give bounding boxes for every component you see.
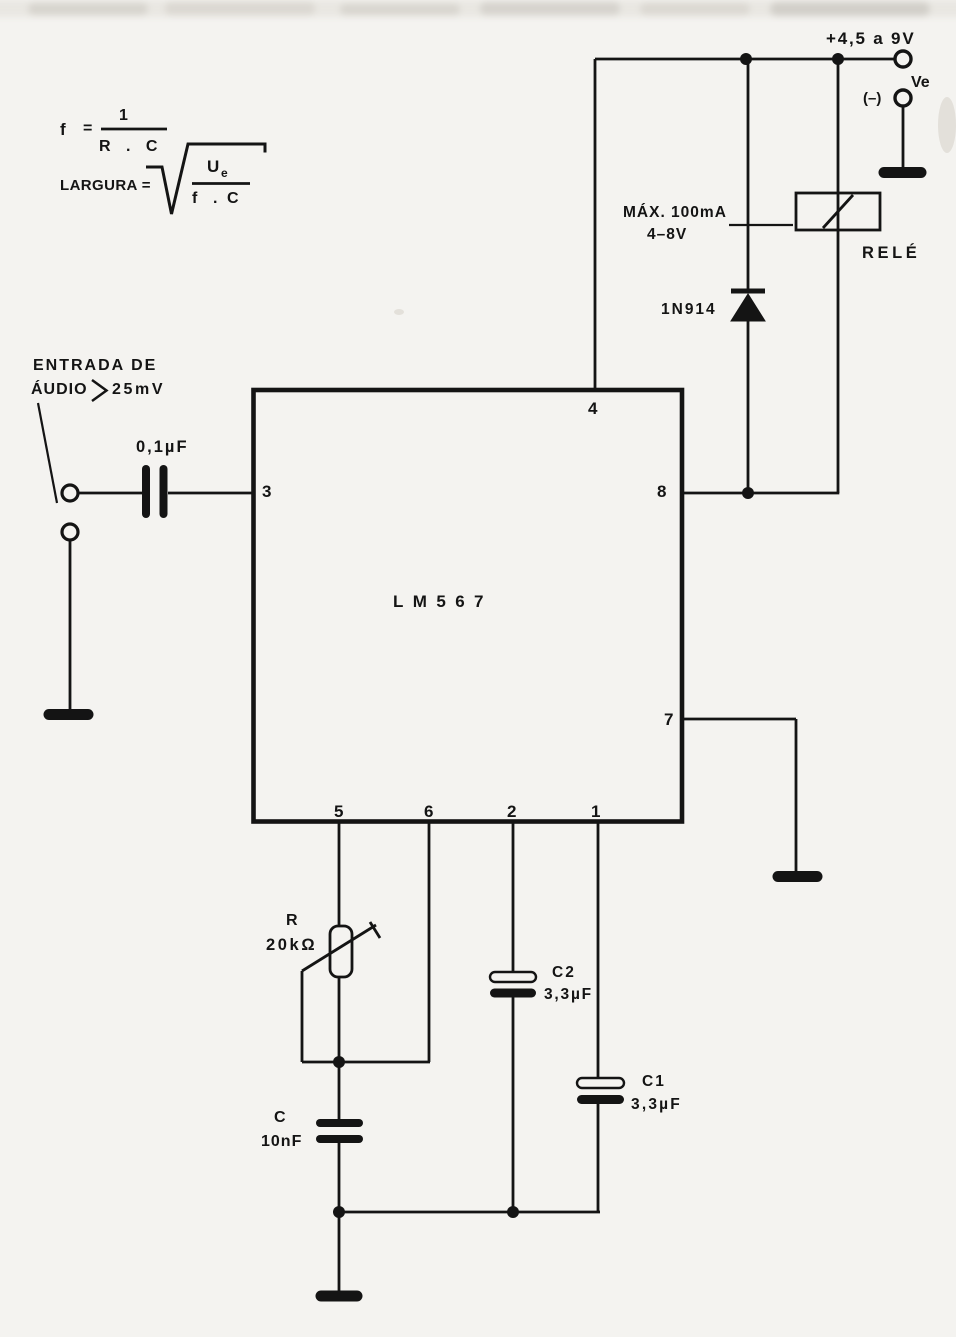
svg-text:LARGURA =: LARGURA = (60, 177, 151, 194)
wire pin 5 down to potentiometer (338, 821, 341, 927)
wire pin 2 down to C2 (512, 821, 515, 972)
capacitor C2 3,3uF positive plate (490, 972, 536, 982)
wire diode anode down to pin 8 line (747, 321, 750, 493)
wire Ve terminal to ground (902, 106, 905, 169)
wire input terminal to coupling capacitor (78, 492, 142, 495)
svg-text:1: 1 (591, 802, 600, 821)
svg-text:3,3µF: 3,3µF (544, 986, 593, 1003)
junction wiper bus / pin5 line (333, 1056, 345, 1068)
ground (bottom) (321, 1291, 357, 1302)
svg-text:LM567: LM567 (393, 592, 493, 611)
junction pin8/diode (742, 487, 754, 499)
leader line from label to input (38, 403, 57, 503)
svg-text:ÁUDIO: ÁUDIO (31, 379, 88, 398)
ground (Ve) (884, 167, 921, 178)
svg-text:3: 3 (262, 482, 271, 501)
svg-text:=: = (83, 120, 92, 137)
svg-text:(–): (–) (863, 90, 881, 107)
relay K1 coil body (796, 193, 880, 230)
junction +V/relay branch (832, 53, 844, 65)
pointer line label to relay (729, 224, 793, 226)
svg-text:+4,5 a 9V: +4,5 a 9V (826, 29, 915, 48)
potentiometer wiper arrow (302, 925, 376, 971)
capacitor C2 3,3uF negative plate (495, 989, 532, 998)
relay diagonal stroke (823, 195, 853, 228)
svg-text:20kΩ: 20kΩ (266, 936, 317, 954)
input terminal (signal) (62, 485, 78, 501)
wire wiper down (301, 971, 304, 1062)
wire through relay coil (837, 193, 840, 230)
svg-text:e: e (221, 166, 228, 180)
potentiometer R 20k body (330, 926, 352, 977)
svg-text:0,1µF: 0,1µF (136, 438, 189, 456)
wire pin 8 to relay/diode branch (682, 492, 839, 495)
svg-text:C: C (227, 190, 239, 207)
wire pin 7 horizontal (682, 718, 796, 721)
capacitor 0,1uF coupling (146, 469, 164, 514)
wire wiper bus to pin 6 (302, 1061, 430, 1064)
diode 1N914 anode triangle (731, 294, 765, 321)
svg-text:4: 4 (588, 399, 598, 418)
svg-text:R . C: R . C (99, 138, 163, 155)
svg-text:7: 7 (664, 710, 673, 729)
label MAX 100mA / 4-8V (623, 204, 727, 243)
svg-text:MÁX. 100mA: MÁX. 100mA (623, 204, 727, 221)
svg-text:3,3µF: 3,3µF (631, 1096, 682, 1113)
svg-text:1: 1 (119, 107, 128, 124)
svg-text:1N914: 1N914 (661, 301, 717, 318)
wire C1 to bottom bus (597, 1104, 600, 1212)
wire relay branch top (837, 59, 840, 193)
svg-text:f: f (60, 120, 66, 139)
svg-text:Ve: Ve (911, 74, 930, 91)
capacitor C 10nF (320, 1123, 359, 1139)
ground (pin 7) (778, 871, 817, 882)
formula LARGURA = sqrt(Ue/(f·C)) (60, 157, 239, 207)
svg-text:C: C (274, 1109, 286, 1126)
formula f = 1/(R·C) (60, 107, 163, 155)
svg-text:2: 2 (507, 802, 516, 821)
svg-text:C2: C2 (552, 964, 576, 981)
svg-text:5: 5 (334, 802, 343, 821)
svg-text:U: U (207, 157, 219, 176)
wire relay bottom to pin 8 line (837, 230, 840, 493)
svg-text:10nF: 10nF (261, 1133, 302, 1150)
wire +V supply rail (595, 58, 895, 61)
junction bus/C line (333, 1206, 345, 1218)
svg-text:6: 6 (424, 802, 433, 821)
svg-text:.: . (213, 190, 217, 207)
svg-text:RELÉ: RELÉ (862, 243, 920, 262)
wire pot to capacitor C (338, 977, 341, 1119)
svg-text:4–8V: 4–8V (647, 226, 687, 243)
wire capacitor to pin 3 (168, 492, 253, 495)
wire bus to bottom ground (338, 1212, 341, 1291)
wire pin 7 down (795, 719, 798, 871)
wire capacitor C to bottom bus (338, 1143, 341, 1212)
input terminal (return/ground) (62, 524, 78, 540)
ground (input) (49, 709, 88, 720)
wiper end tick (370, 922, 380, 938)
junction bus/C2 line (507, 1206, 519, 1218)
terminal +4,5 a 9V (895, 51, 911, 67)
label ENTRADA DE AUDIO > 25mV (31, 357, 165, 398)
wire pin 1 down to C1 (597, 821, 600, 1078)
capacitor C1 3,3uF negative plate (582, 1095, 620, 1104)
svg-text:C1: C1 (642, 1073, 666, 1090)
IC U1 LM567 body (254, 390, 683, 822)
wire pin 6 down (428, 821, 431, 1062)
wire input ground terminal down (69, 540, 72, 710)
wire C2 to bottom bus (512, 997, 515, 1212)
junction +V/diode branch (740, 53, 752, 65)
svg-text:f: f (192, 190, 198, 207)
svg-text:8: 8 (657, 482, 666, 501)
capacitor C1 3,3uF positive plate (577, 1078, 624, 1088)
svg-text:ENTRADA DE: ENTRADA DE (33, 357, 157, 374)
wire diode branch top (747, 59, 750, 291)
svg-text:R: R (286, 912, 298, 929)
diode 1N914 cathode bar (731, 289, 765, 294)
svg-text:25mV: 25mV (112, 381, 165, 398)
wire pin 4 to +V rail (594, 59, 597, 390)
terminal Ve (-) (895, 90, 911, 106)
wire bottom ground bus (339, 1211, 600, 1214)
